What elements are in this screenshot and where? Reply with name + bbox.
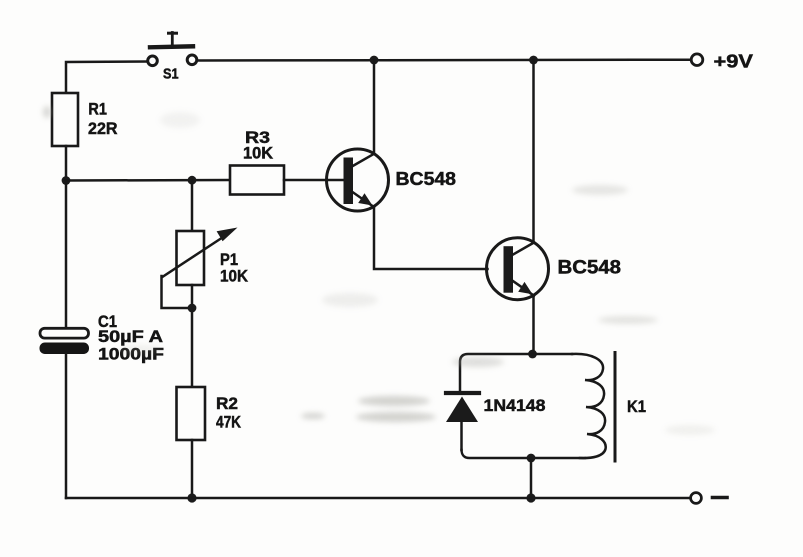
diode D1 1N4148: [446, 393, 479, 450]
node wiper junction: [188, 304, 197, 313]
wire R3 to Q1 base: [284, 179, 345, 182]
resistor R1: [52, 93, 78, 146]
svg-text:R1: R1: [88, 100, 107, 119]
svg-text:22R: 22R: [88, 119, 118, 138]
node bottom rail / relay: [526, 493, 535, 502]
wire Q2 collector to top rail: [532, 60, 535, 243]
transistor Q2 BC548: [487, 238, 549, 300]
terminal +9V: [691, 54, 703, 66]
wire R1 bottom to mid node: [65, 146, 68, 181]
node P1 branch junction: [188, 176, 197, 185]
wire relay/diode bottom: [462, 450, 586, 458]
wire mid horizontal: [66, 179, 230, 182]
svg-text:S1: S1: [163, 66, 179, 82]
label R3 10K: [243, 128, 274, 163]
capacitor C1: [40, 181, 90, 499]
node mid-left junction: [62, 176, 71, 185]
terminal minus: [691, 493, 702, 504]
svg-text:10K: 10K: [220, 267, 249, 286]
wire bottom rail: [66, 497, 690, 500]
resistor R2: [177, 387, 206, 440]
wire relay/diode top: [460, 354, 572, 391]
svg-text:BC548: BC548: [396, 168, 457, 189]
transistor Q1 BC548: [327, 149, 389, 211]
relay core bar: [614, 353, 617, 462]
svg-text:+9V: +9V: [714, 51, 754, 72]
potentiometer P1: [162, 180, 238, 308]
wire R2 bottom to ground rail: [191, 440, 194, 498]
label C1 50uF 1000uF: [98, 312, 164, 364]
svg-text:BC548: BC548: [558, 258, 622, 279]
svg-text:1N4148: 1N4148: [484, 396, 546, 415]
svg-text:K1: K1: [627, 397, 646, 416]
wire Q1 collector to top rail: [373, 60, 376, 154]
label P1 10K: [220, 250, 249, 286]
wire relay bottom to ground rail: [530, 458, 533, 498]
label R1 22R: [88, 100, 118, 139]
svg-text:50µF A: 50µF A: [98, 327, 163, 346]
wire Q2 emitter to relay: [532, 296, 535, 354]
node relay top: [528, 350, 537, 359]
node relay bottom junction: [527, 454, 536, 463]
resistor R3: [230, 166, 284, 195]
node top rail / Q1 collector: [370, 56, 379, 65]
scan smudges (decorative): [43, 106, 715, 435]
label R2 47K: [216, 394, 242, 432]
svg-text:R2: R2: [216, 394, 238, 413]
pushbutton S1: [148, 33, 197, 66]
wire P1 bottom: [191, 285, 194, 387]
label minus: [713, 496, 728, 500]
svg-text:10K: 10K: [243, 144, 274, 163]
wire top rail left segment: [66, 62, 148, 94]
relay coil K1: [572, 354, 606, 458]
svg-text:47K: 47K: [216, 413, 242, 432]
wire Q1 emitter down and over to Q2 base: [374, 207, 488, 269]
wire top rail right segment: [198, 58, 691, 61]
node R2/bottom rail: [187, 493, 196, 502]
node top rail / Q2 collector: [529, 56, 538, 65]
